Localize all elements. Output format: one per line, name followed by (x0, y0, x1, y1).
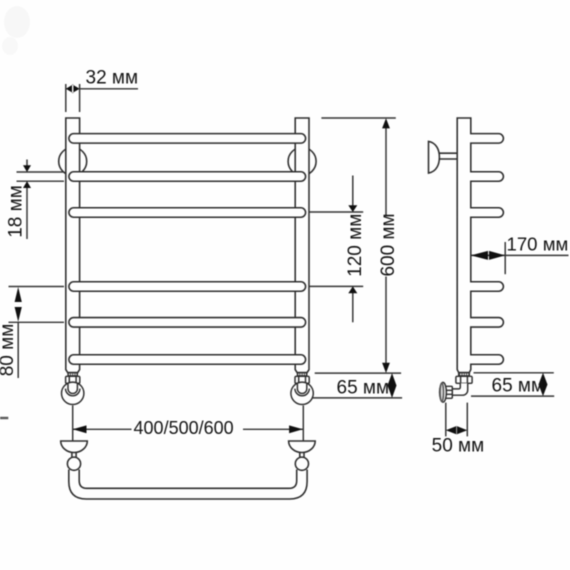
arrow 65mm side bowtie vertical (539, 373, 548, 396)
bar 4 (front view) (69, 282, 306, 292)
svg-text:80 мм: 80 мм (0, 324, 18, 377)
arrow 600mm bottom (down) (382, 363, 390, 373)
bar 2 (front view) (69, 172, 306, 182)
dim 50mm extension lines (446, 403, 468, 437)
bar 1 (front view) (69, 134, 306, 144)
dim 18mm upper leader (26, 160, 28, 168)
dim 600mm / 65mm shared extension line (315, 372, 401, 374)
svg-text:18 мм: 18 мм (5, 185, 26, 238)
bottom view: U-shaped tube inner edge (79, 470, 297, 489)
arrow 50mm bowtie horizontal (446, 426, 468, 435)
right rail (front view) (295, 118, 309, 373)
dim 32mm line (80, 88, 138, 90)
dim 170mm line (471, 254, 569, 256)
svg-text:170 мм: 170 мм (507, 233, 569, 254)
arrow 65mm front bowtie vertical (388, 373, 397, 398)
dim 120mm upper leader (352, 176, 354, 206)
svg-text:65 мм: 65 мм (492, 375, 545, 396)
arrow 120mm upper (down) (348, 205, 357, 212)
bracket stem (side view) (439, 153, 457, 159)
svg-text:600 мм: 600 мм (378, 213, 399, 276)
bottom view: left wall dome (61, 441, 316, 499)
side view rail with bar stubs (comb outline) (457, 118, 503, 373)
smudge top-left artifact (2, 6, 30, 55)
arrow 400/500/600 left (73, 425, 87, 433)
bottom view: right wall dome (289, 441, 316, 453)
bottom fitting left (front view) (61, 373, 83, 405)
dim 65mm side extension lines (471, 373, 554, 396)
arrow 18mm lower (up) (23, 181, 31, 188)
wall bracket dome (side view) (429, 141, 458, 173)
bar 3 (front view) (69, 208, 306, 218)
dim 80mm extension lines (9, 287, 65, 323)
arrow 170mm double horizontal (471, 251, 505, 260)
arrow 18mm upper (down) (23, 165, 31, 172)
dim 400/500/600 line segments (73, 428, 303, 430)
dim 600mm leader segments (385, 128, 387, 364)
svg-text:400/500/600: 400/500/600 (134, 418, 234, 438)
bottom fitting right (front view) (291, 373, 313, 405)
bottom view: left stem (72, 453, 76, 458)
dim 120mm lower leader (352, 293, 354, 323)
dim 80mm leader below (17, 322, 19, 378)
bar 6 (front view) (69, 355, 306, 365)
bar 5 (front view) (69, 318, 306, 328)
dim 32mm extension lines (66, 84, 80, 112)
wall bracket circle right (front view) (288, 147, 316, 175)
arrow 400/500/600 right (289, 425, 303, 433)
dim 65mm front bottom extension line (312, 397, 403, 399)
wall bracket circle left (front view) (59, 147, 87, 175)
dim 170mm extension line (504, 242, 506, 274)
bottom view: U-shaped tube outer edge (69, 470, 307, 500)
bottom fitting (side view): thread, nut, elbow, union, wall flange (440, 373, 473, 403)
bottom view: right stem (300, 453, 304, 458)
svg-text:32 мм: 32 мм (86, 68, 139, 89)
left rail (front view) (66, 118, 80, 373)
arrow 600mm top (up) (382, 118, 390, 128)
bottom view: right ball (295, 457, 308, 470)
dim 400/500/600 extension lines (73, 406, 304, 441)
edge artifact line left (0, 417, 8, 419)
dim 600mm top extension line (321, 117, 395, 119)
svg-text:120 мм: 120 мм (345, 214, 366, 277)
bottom view: left ball (67, 457, 80, 470)
arrow 80mm double vertical (15, 287, 22, 322)
dim 18mm lower leader (26, 188, 28, 239)
svg-text:65 мм: 65 мм (337, 378, 390, 399)
arrow 32mm bowtie (66, 84, 80, 93)
dim 18mm extension lines (17, 172, 65, 181)
arrow 120mm lower (up) (348, 286, 357, 293)
svg-text:50 мм: 50 мм (432, 435, 485, 456)
dim 120mm extension lines (309, 212, 363, 286)
